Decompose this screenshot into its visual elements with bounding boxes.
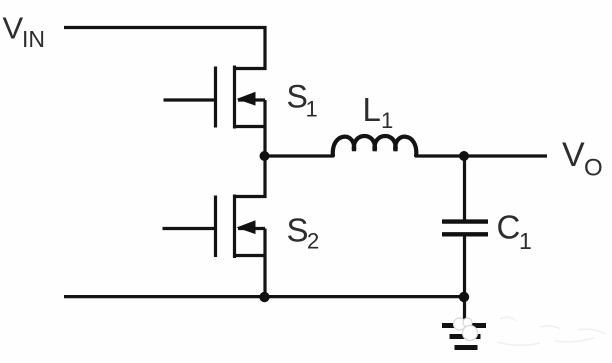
transistor S2 source lead	[235, 254, 266, 257]
transistor S1 gate lead wire	[164, 98, 216, 101]
wire: VIN top rail and S1 drain	[64, 28, 265, 69]
transistor S1 gate bar	[214, 67, 217, 128]
svg-text:1: 1	[381, 108, 393, 133]
capacitor C1 bottom plate	[442, 232, 488, 236]
watermark logo blobs over ground	[454, 318, 478, 341]
wire: capacitor to bottom rail	[463, 237, 466, 297]
transistor S2 body lead	[238, 227, 265, 230]
wire: S2 source down to bottom rail	[263, 229, 266, 297]
label VIN	[3, 11, 46, 53]
svg-text:C: C	[497, 209, 521, 246]
transistor S1 source lead	[235, 125, 266, 128]
svg-text:L: L	[363, 91, 381, 128]
wire: node A to inductor	[265, 154, 334, 157]
inductor L1	[333, 136, 417, 157]
wire: bottom rail	[64, 295, 466, 298]
ground bar 1	[442, 323, 486, 328]
transistor S2 channel bar	[233, 195, 236, 259]
label VO	[562, 136, 603, 182]
transistor S2 body arrow	[237, 220, 256, 234]
svg-text:S: S	[287, 211, 309, 248]
svg-text:V: V	[562, 136, 585, 174]
wire: inductor to VO output	[415, 154, 547, 157]
transistor S1 body lead	[238, 98, 265, 101]
label C1	[497, 209, 532, 255]
wire: S1 source down through node A to S2 drain	[235, 100, 266, 197]
label L1	[363, 91, 394, 133]
transistor S2 gate lead wire	[163, 227, 216, 230]
ground bar 3	[455, 345, 478, 350]
svg-text:V: V	[3, 11, 24, 46]
transistor S2 gate bar	[214, 196, 217, 258]
capacitor C1 top plate	[442, 219, 488, 223]
transistor S1 body arrow	[237, 92, 256, 106]
node A junction dot	[260, 151, 270, 161]
bottom rail junction dot left	[259, 292, 269, 302]
ground bar 2	[450, 334, 481, 339]
svg-text:IN: IN	[22, 26, 45, 52]
wire: node B down to capacitor	[463, 156, 466, 220]
svg-text:2: 2	[307, 228, 319, 253]
label S1	[287, 79, 318, 122]
node B junction dot	[459, 151, 469, 161]
ground stem	[463, 297, 466, 324]
svg-text:1: 1	[306, 97, 318, 122]
bottom rail junction dot right (ground node)	[459, 292, 469, 302]
svg-text:O: O	[584, 155, 603, 182]
watermark faint smudges	[497, 317, 606, 345]
label S2	[287, 211, 320, 253]
svg-text:1: 1	[519, 228, 532, 254]
transistor S1 channel bar	[233, 66, 236, 129]
